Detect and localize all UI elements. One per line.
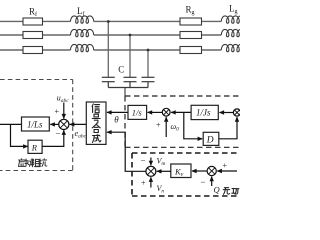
resistor Rf phase B: [23, 32, 43, 39]
wire sum to 1/Ls: [50, 123, 59, 125]
label 虚拟阻抗: [19, 159, 47, 167]
resistor Rg phase A: [180, 18, 202, 25]
wire phase B: [0, 34, 221, 36]
svg-text:θ: θ: [114, 114, 119, 124]
wire 1/s to signal box, theta: [107, 111, 128, 113]
summing junction right clipped: [233, 109, 240, 116]
wire sum2 to Kv: [192, 170, 207, 172]
summing junction omega: [162, 108, 170, 116]
svg-text:−: −: [141, 156, 146, 166]
summing junction Q: [207, 166, 216, 175]
svg-text:+: +: [141, 178, 146, 187]
capacitor C1: [102, 77, 115, 87]
dashed box active power loop: [125, 96, 240, 147]
svg-text:D: D: [206, 135, 214, 145]
wire 1/Js to sum: [171, 111, 191, 113]
wire sum1 output to signal box: [107, 132, 146, 171]
wire omega0 into sum: [165, 117, 167, 137]
wire sum to 1/s: [148, 111, 163, 113]
block signal synthesis 信号合成: [86, 102, 106, 144]
wire Vm into sum1: [150, 158, 152, 166]
svg-text:Q: Q: [214, 185, 220, 195]
tap wire phase B to capacitor 2: [129, 35, 131, 77]
resistor Rf phase A: [23, 18, 43, 25]
inductor Lf phase B: [71, 29, 94, 36]
wire Kv to sum1: [157, 170, 171, 172]
inductor Lg phase B: [221, 29, 244, 36]
junction node phase B: [129, 34, 132, 37]
wire D to sum4: [219, 117, 237, 139]
wire Q into sum2: [211, 177, 213, 186]
wire R to sum bottom: [43, 130, 64, 146]
wire Vn into sum1: [150, 177, 152, 187]
block 1/s: [128, 105, 147, 119]
block 1/Js: [191, 105, 218, 119]
inductor Lg phase C: [221, 44, 244, 51]
svg-text:+: +: [55, 107, 60, 116]
wire u_abc into sum top: [63, 103, 65, 119]
inductor Lf phase A: [71, 16, 94, 23]
label 无功: [223, 188, 239, 195]
dashed box virtual impedance: [0, 80, 73, 171]
capacitor bus wire: [108, 87, 148, 89]
svg-text:R: R: [31, 142, 38, 152]
wire e_abc from signal box to sum: [70, 123, 87, 125]
wire branch to D: [184, 112, 202, 138]
dashed box reactive power loop: [132, 153, 240, 196]
inductor Lf phase C: [71, 44, 94, 51]
wire phase C: [0, 49, 221, 51]
svg-text:1/Js: 1/Js: [196, 108, 211, 118]
wire Qref into sum2: [217, 170, 237, 172]
junction node phase C: [147, 49, 150, 52]
wire 1/Ls output to left edge: [0, 123, 22, 125]
resistor Rg phase B: [180, 32, 202, 39]
capacitor C2: [124, 77, 137, 87]
resistor Rf phase C: [23, 47, 43, 54]
svg-text:1/Ls: 1/Ls: [27, 120, 43, 130]
svg-text:−: −: [201, 177, 206, 187]
wire sum4 to 1/Js: [220, 112, 234, 114]
block Kv: [171, 164, 191, 178]
wire down to R: [11, 124, 28, 146]
block R: [28, 140, 42, 153]
resistor Rg phase C: [180, 47, 202, 54]
svg-text:+: +: [223, 161, 228, 170]
summing junction virtual impedance: [59, 119, 69, 129]
inductor Lg phase A: [221, 16, 244, 23]
block 1/Ls: [22, 117, 50, 131]
svg-text:1/s: 1/s: [132, 108, 143, 118]
svg-text:−: −: [56, 129, 61, 139]
capacitor C3: [142, 77, 155, 87]
block D: [203, 132, 219, 145]
summing junction voltage: [146, 166, 156, 176]
tap wire phase C to capacitor 3: [147, 50, 149, 77]
svg-text:+: +: [156, 121, 161, 130]
svg-text:C: C: [118, 64, 124, 74]
junction node phase A: [107, 20, 110, 23]
tap wire phase A to capacitor 1: [107, 21, 109, 77]
wire bus to control box: [124, 88, 126, 97]
wire phase A: [0, 20, 221, 22]
